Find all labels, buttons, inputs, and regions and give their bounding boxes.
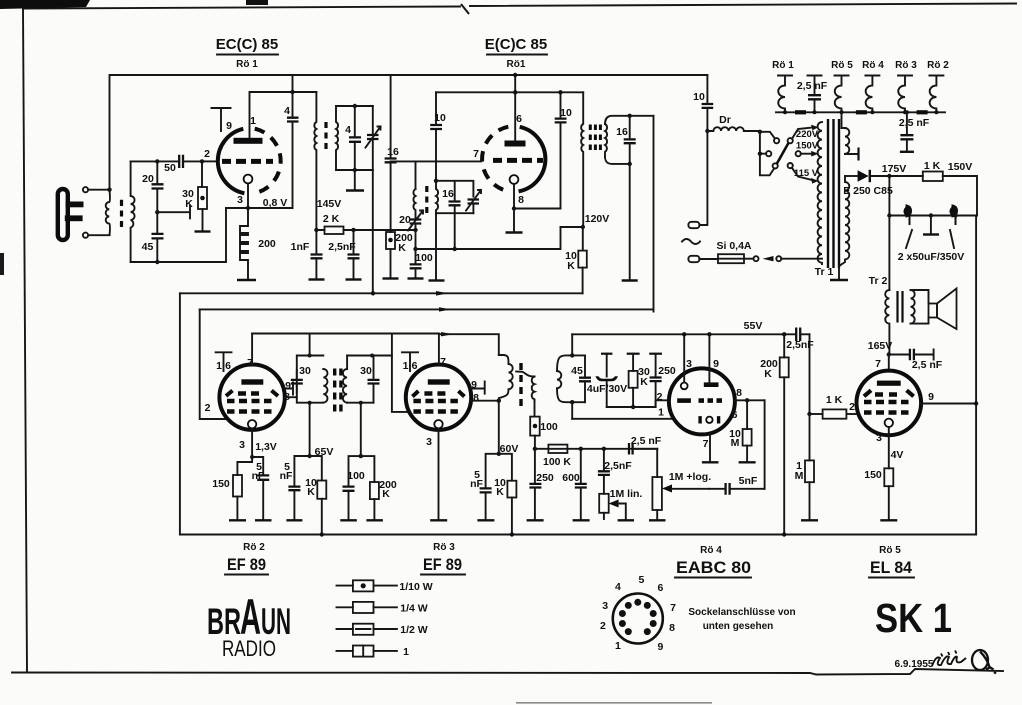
svg-text:1: 1 [403,360,409,372]
capacitor 10 (tube2 right) [555,90,572,208]
capacitor 5nF (Rö2 cathode) [252,457,272,520]
heater Rö4 [865,76,879,113]
svg-text:6: 6 [516,113,522,125]
node 60V [497,443,519,456]
ground Tr1 [838,266,840,279]
capacitor 5nF (AF) [709,475,765,495]
border frame top [23,4,1016,15]
switch circle C5 [773,163,778,168]
tube EL84 grid dashes row3 [864,410,909,414]
resistor 150 (EL84) [864,468,897,520]
wire tone cap link [633,448,658,450]
resistor 10M [729,400,755,462]
svg-text:1: 1 [658,407,664,419]
svg-text:1M +log.: 1M +log. [669,471,711,483]
wire 249 line to 120V riser [416,227,561,249]
capacitor 16 (osc) [442,181,460,213]
electrolytic cap 2 [950,204,959,225]
IF5 box top [557,355,585,371]
resistor 100K [543,445,571,468]
switch circle C6 [788,163,793,168]
svg-text:145V: 145V [317,198,342,210]
node row left [887,213,891,217]
heater Rö1 [778,76,792,113]
pin 1 wire anode to rail [250,75,317,138]
svg-text:4: 4 [284,105,290,117]
tube EL84 cathode circle [885,419,893,427]
tube Rö3 anode bar [428,379,450,384]
wire 100K line [535,448,657,450]
rail 55V [572,320,796,336]
wire secondary top to grid line [131,160,158,162]
rail B wire [200,308,654,310]
IF3 box bottom [605,157,630,164]
antenna coil secondary [131,161,135,262]
capacitor 250 (deemph) [527,449,554,521]
antenna terminal top [83,187,88,192]
ground IF3 [622,279,638,281]
resistor 10K (60V) [494,454,516,537]
node 20/45 branch [155,159,159,163]
svg-text:1 K: 1 K [924,160,941,172]
tube Rö1 grid dashes [222,159,273,164]
IF5 box bottom [557,389,585,402]
svg-text:EABC 80: EABC 80 [676,558,751,577]
tube Rö1 envelope dashed arc [254,129,281,194]
capacitor 20 [142,161,163,212]
wire IF3 ground [629,164,631,279]
resistor 30K (det) [627,354,650,407]
svg-text:2 K: 2 K [323,213,340,225]
wire fuse to switch contact [744,258,754,260]
wire antenna to transformer [88,190,109,236]
svg-text:8: 8 [669,622,675,634]
capacitor 45 [142,212,164,262]
svg-text:K: K [307,486,315,498]
transformer Tr1 primary [818,122,822,264]
transformer Tr1 HV winding [839,176,849,266]
IF4 box1 [297,334,324,457]
node box bottom [570,400,574,404]
pin 7 wire Rö3 [439,334,446,368]
node 1K junction [807,412,811,416]
node osc 249 [413,247,417,251]
oscillator coil left [413,189,415,219]
pin 8 wire Rö3 [470,392,499,404]
pin 9 stub with T top [212,108,233,132]
tube Rö4 anode bar pin9 [704,382,719,387]
IF1 secondary coil [336,106,338,170]
node 2K right [351,228,355,232]
legend resistor 1/10W [337,580,433,593]
wire heater to Tr1 [841,112,843,128]
resistor 1K (EL84 grid) [810,394,857,419]
tube E(C)C85 cathode circle [510,175,519,184]
svg-text:3: 3 [686,358,692,370]
svg-text:unten gesehen: unten gesehen [703,621,774,632]
heater rail fat bar 2 [856,110,867,114]
IF3 primary coil [581,92,583,227]
svg-text:7: 7 [473,148,479,160]
anode rail Rö2 [252,333,439,335]
tube Rö2 anode bar [241,379,263,384]
node cathode junction [246,206,250,210]
svg-text:K: K [398,242,406,254]
svg-text:Rö 3: Rö 3 [433,542,455,553]
choke Dr [707,114,759,131]
tube Rö1 cathode circle [244,175,253,184]
pin 9 stub Rö3 [471,379,485,394]
svg-text:EC(C) 85: EC(C) 85 [216,36,279,53]
svg-text:2,5 nF: 2,5 nF [797,80,828,92]
ground osc right coil [429,279,445,281]
svg-text:1: 1 [615,640,621,652]
svg-text:150V: 150V [948,161,973,173]
svg-text:Tr 2: Tr 2 [869,275,888,287]
wire 5nF riser [764,400,766,489]
tube Rö1 anode bar [234,138,263,144]
node pin9/right [974,401,978,405]
svg-text:6: 6 [657,582,663,594]
osc sub-branch 16/trimmer [434,179,474,197]
transformer Tr2 core [898,291,903,323]
pin 6 wire [513,73,522,141]
wire grid to tube pin 2 [202,160,215,162]
transformer Tr2 primary [885,290,889,355]
rail A upper-lower connection [180,292,583,294]
svg-text:7: 7 [703,438,709,450]
capacitor 2,5nF heater [797,76,828,113]
svg-text:6: 6 [732,409,738,421]
resistor 10K (120V) [565,227,587,293]
capacitor 16 (IF3) [616,116,636,164]
capacitor 45 (det) [571,355,591,402]
capacitor 16 (grid tube2) [385,75,399,232]
arrow mark anode rail [441,332,453,336]
pin 3 cathode Rö3 [426,428,447,520]
IF4 core dashes [335,369,341,412]
svg-text:220V: 220V [796,129,819,140]
tube Rö2 grid hooks [226,391,278,397]
lower box bottom rail [180,534,976,536]
node 65V [307,446,333,458]
electrolytic 4uF/30V [587,354,627,407]
svg-text:45: 45 [571,365,583,377]
pin 3 wire EABC [684,334,692,382]
svg-text:Rö 1: Rö 1 [772,60,794,71]
node 2,5nF junction [602,447,606,451]
node heater junctions [783,110,938,114]
svg-text:4: 4 [345,124,351,136]
svg-text:600: 600 [562,472,580,484]
node row mid [929,213,933,217]
svg-text:6: 6 [412,360,418,372]
svg-text:2: 2 [657,391,663,403]
resistor 1K (supply) [889,160,977,216]
svg-text:3: 3 [602,600,608,612]
svg-text:Rö 2: Rö 2 [927,60,949,71]
svg-text:200: 200 [258,238,276,250]
pin 1/6 stub Rö3 [402,352,418,372]
svg-text:Rö 2: Rö 2 [243,542,265,553]
node selector mid [758,152,762,156]
svg-text:Rö 1: Rö 1 [236,59,258,70]
tube Rö3 grid dashes row2 [413,399,458,403]
node 45 bottom [155,260,159,264]
coil box1 [323,369,327,403]
resistor 1M [795,414,818,520]
svg-text:nF: nF [280,470,293,482]
node osc mid [453,247,457,251]
node 175V [887,174,891,178]
svg-text:7: 7 [670,602,676,614]
tube EL84 grid dashes row1 [875,392,897,396]
resistor 2K [316,213,415,234]
heater rail fat bar 1 [795,110,806,114]
potentiometer 1M lin [599,488,642,520]
svg-text:Rö 5: Rö 5 [879,545,901,556]
svg-text:Rö 3: Rö 3 [895,60,917,71]
capacitor 1nF [291,230,325,280]
capacitor 50 [157,155,202,174]
node IF3 bottom [628,162,632,166]
svg-text:150: 150 [864,469,882,481]
socket diagram [600,574,676,653]
tube EL84 anode bar [877,381,901,386]
tube E(C)C85 envelope dashed arc [482,127,509,192]
svg-text:16: 16 [387,146,399,158]
tube Rö4 pin2 bar [677,398,691,403]
oscillator core dashes [425,186,428,213]
chassis bar heater winding [857,148,859,161]
wire osc bottom bar [436,213,473,249]
tube Rö2 cathode circle [248,420,256,428]
svg-text:2: 2 [204,148,210,160]
transformer Tr1 core [828,119,839,268]
svg-text:Rö 4: Rö 4 [700,545,722,556]
capacitor 30 (box2) [360,356,379,403]
svg-text:5nF: 5nF [739,475,758,487]
svg-text:2,5nF: 2,5nF [328,241,356,253]
svg-text:1M lin.: 1M lin. [610,488,643,500]
svg-text:Tr 1: Tr 1 [815,266,834,278]
svg-text:3: 3 [426,436,432,448]
capacitor 2,5nF (coupling) [786,328,814,352]
signature [932,651,966,667]
heater chain labels [772,60,949,71]
ground 200 [237,279,256,281]
node pin1/cap4 junction [290,90,294,94]
svg-text:K: K [496,486,504,498]
svg-text:50: 50 [164,162,176,174]
wire det bottom line [607,400,670,407]
node det bottom [631,405,635,409]
svg-text:1: 1 [403,646,409,658]
svg-text:1/2 W: 1/2 W [400,624,428,636]
pin 9 wire EABC [709,334,719,382]
top rail wire [110,75,708,190]
wire grid line tube2 [391,161,482,189]
switch arm [777,143,789,164]
potentiometer 1M+log [649,449,711,521]
pin 8 wire Rö2 [284,391,297,403]
anode rail Rö3 [439,334,499,355]
svg-text:1,3V: 1,3V [255,441,277,453]
tube Rö2 grid dashes row2 [227,399,272,403]
tube Rö2 EF89 envelope [219,365,284,430]
svg-text:7: 7 [440,356,446,368]
svg-text:1 K: 1 K [826,394,843,406]
heater rail wire [776,111,945,113]
wire osc top rail y92 [436,91,583,93]
tube E(C)C85 anode bar [505,141,526,147]
svg-text:K: K [185,198,193,210]
tube Rö1(2) E(C)C85 envelope solid arc [519,127,546,192]
capacitor 4 (IF1) [345,106,361,170]
antenna coil primary [106,190,110,236]
svg-text:4V: 4V [891,449,904,461]
tube Rö5 EL84 envelope [857,371,922,436]
node AGC tap [155,210,159,214]
antenna symbol [58,189,84,240]
wire selector bracket [760,132,775,176]
capacitor 2,5nF (EL84 anode) [889,349,943,371]
svg-text:1/4 W: 1/4 W [400,603,428,615]
svg-text:EF 89: EF 89 [227,555,266,574]
capacitor 600 [562,449,589,521]
svg-text:250: 250 [658,365,676,377]
svg-text:2,5 nF: 2,5 nF [631,435,662,447]
wire plug to fuse [699,258,718,260]
label 120V node [561,213,610,229]
tube Rö4 EABC80 envelope [669,368,735,434]
svg-text:Rö1: Rö1 [507,59,526,70]
wire 0,8V node [226,197,293,209]
svg-text:SK 1: SK 1 [875,595,952,641]
node selector top [758,130,762,134]
svg-text:150V: 150V [796,141,819,152]
svg-text:1: 1 [216,360,222,372]
ground electrolytics [930,216,932,234]
transformer Tr1 heater winding [845,128,857,154]
node 55V/200K junction [782,332,786,336]
svg-text:2: 2 [205,402,211,414]
wire osc down [415,230,417,249]
svg-text:175V: 175V [882,163,907,175]
IF5 primary coil [499,355,513,401]
rail B arrow mark [439,307,451,311]
switch circle C3 [766,151,771,156]
svg-text:6: 6 [225,360,231,372]
tube E(C)C85 grid dashes [493,158,543,163]
inner rail left edge [200,309,228,419]
socket caption [688,607,795,632]
BRAUN logo [207,589,291,645]
svg-text:3: 3 [239,439,245,451]
mains plug bottom [688,256,699,262]
svg-text:9: 9 [226,120,232,132]
svg-text:EL 84: EL 84 [870,558,912,577]
pin 8 wire [506,184,561,233]
svg-text:2,5 nF: 2,5 nF [912,359,943,371]
pin 7 wire Rö2 [247,334,253,370]
svg-text:EF 89: EF 89 [423,555,462,574]
svg-text:Si 0,4A: Si 0,4A [716,240,751,252]
heater Rö2 [929,76,943,113]
capacitor 100 (box2 agc) [340,454,365,520]
svg-text:30: 30 [299,365,311,377]
trimmer capacitor (osc right) [466,190,481,213]
diode E250C85 [843,170,893,197]
svg-text:9: 9 [928,391,934,403]
scan artifact bottom thin line [516,702,712,704]
wire AGC tap with T end [157,206,190,218]
IF3 box top [605,116,654,124]
svg-text:3: 3 [876,432,882,444]
pin 9 stub Rö2 [285,380,294,395]
resistor 200 zigzag [240,208,276,279]
svg-text:Dr: Dr [719,114,731,126]
switch circle C2 [788,138,793,143]
tube Rö4 diode bars [700,416,719,423]
resistor 150 (Rö2) [212,457,252,520]
tube EL84 grid dashes row2 [864,400,909,404]
capacitor 250 (det) [649,354,676,407]
svg-text:55V: 55V [744,320,763,332]
resistor 30K [182,163,207,230]
svg-text:16: 16 [442,188,454,200]
IF3 secondary coil [605,124,607,157]
capacitor 2,5nF heater right [899,112,930,152]
trimmer capacitor 20 (osc) [399,211,423,231]
node antenna/top-rail junction [107,188,111,192]
svg-text:1nF: 1nF [291,241,310,253]
capacitor 5nF (65V) [280,456,310,520]
node IF1 bottom [353,168,357,172]
svg-text:20: 20 [399,214,411,226]
svg-text:K: K [382,488,390,500]
mains plug top [688,222,699,228]
svg-text:2: 2 [600,620,606,632]
node IF3 cap16 top [628,114,632,118]
oscillator coil right [436,130,438,281]
IF1 core dashes [324,122,327,149]
pin 7 wire EL84 [875,355,889,371]
svg-text:8: 8 [518,194,524,206]
lower box left edge [179,293,181,534]
svg-text:K: K [640,376,648,388]
svg-text:E 250 C85: E 250 C85 [843,185,893,197]
node 2K left [314,228,318,232]
mains tilde [682,239,700,244]
svg-text:K: K [567,260,575,272]
capacitor 30 (box1) [291,365,311,393]
resistor 200K (with dot) [383,232,413,279]
svg-text:250: 250 [536,472,554,484]
wire IF1 to lower rail [372,170,374,293]
node 600 junction [579,447,583,451]
scan artifact top-left [0,0,90,9]
transformer core dashes [120,200,123,227]
IF1 box bottom [336,169,373,171]
pin 3 cathode EL84 [876,427,903,468]
fuse Si 0,4A [716,240,751,263]
svg-text:K: K [764,368,772,380]
wire box bottom to pin1 line [571,402,573,419]
svg-text:120V: 120V [585,213,610,225]
svg-text:10: 10 [560,107,572,119]
tube Rö3 EF89 envelope [406,365,471,430]
